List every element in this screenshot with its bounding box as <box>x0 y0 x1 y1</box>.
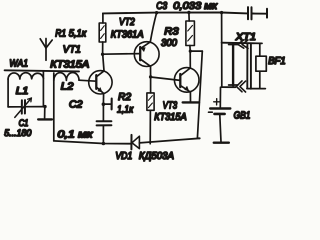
wire VT3 emitter down <box>189 92 191 102</box>
svg-text:R2: R2 <box>118 92 131 103</box>
ground (VT3 emitter) <box>183 101 199 103</box>
capacitor C1 (variable) <box>15 98 32 117</box>
wire rail down to XT1 <box>221 13 223 88</box>
svg-text:0,1 мк: 0,1 мк <box>58 130 93 141</box>
node rail junction <box>102 142 106 146</box>
svg-text:5,1к: 5,1к <box>69 29 87 40</box>
wire VT1 collector up to node A <box>103 54 104 71</box>
wire tank bottom right <box>26 106 46 108</box>
capacitor C2 <box>97 121 112 125</box>
svg-text:WA1: WA1 <box>9 58 28 69</box>
wire node D down <box>102 104 104 121</box>
inductor L1 <box>8 71 43 107</box>
wire stub right <box>103 103 110 105</box>
resistor R1 <box>99 13 106 54</box>
battery GB1 <box>209 87 231 142</box>
node D (emitter/C2) <box>102 102 106 106</box>
connector XT1 <box>222 40 266 92</box>
plate (stub capacitor) <box>111 99 113 110</box>
wire VT3 collector / R3 node <box>189 51 191 68</box>
wire bottom rail right <box>139 138 199 143</box>
capacitor C3 <box>248 7 267 19</box>
svg-text:КТ315А: КТ315А <box>154 112 187 123</box>
wire VT2 emitter to top rail <box>150 13 156 42</box>
ferrite core line (antenna wire) <box>5 70 79 71</box>
wire tank bottom left <box>8 106 21 108</box>
svg-text:300: 300 <box>161 38 178 49</box>
svg-text:R3: R3 <box>164 27 179 38</box>
wire feedback down <box>197 51 202 138</box>
svg-text:С2: С2 <box>69 99 83 110</box>
wire L2 to VT1 base <box>79 80 96 81</box>
svg-text:КД503А: КД503А <box>139 151 175 162</box>
wire down to ground <box>44 107 46 118</box>
ground (tank) <box>38 118 52 120</box>
wire node B to VT3 base <box>151 77 181 80</box>
wire VT1 emitter down <box>102 93 104 104</box>
diode VD1 <box>131 135 139 150</box>
node XT1 drop <box>220 11 223 14</box>
svg-text:1,1к: 1,1к <box>117 104 134 115</box>
node C (R3/VT3c/feedback) <box>189 50 192 53</box>
wire feedback right <box>190 50 202 52</box>
svg-text:XT1: XT1 <box>235 32 257 43</box>
svg-text:VD1: VD1 <box>115 151 132 162</box>
wire VT2 collector down <box>150 66 152 77</box>
wire node A to VT2 base <box>103 53 141 56</box>
inductor L2 <box>54 72 79 140</box>
svg-text:L2: L2 <box>61 82 74 93</box>
svg-text:R1: R1 <box>55 29 66 40</box>
svg-text:С3: С3 <box>156 1 167 12</box>
wire top rail <box>103 12 247 15</box>
node B (VT2c/R2/VT3b) <box>149 75 152 78</box>
svg-text:BF1: BF1 <box>268 56 286 67</box>
wire C2 down to rail <box>102 126 104 144</box>
svg-text:КТ361А: КТ361А <box>111 29 144 40</box>
svg-text:VT2: VT2 <box>119 17 135 28</box>
svg-text:VT3: VT3 <box>163 101 178 112</box>
node tank-ground junction <box>43 105 46 108</box>
resistor R3 <box>186 11 195 51</box>
node VT2e/rail <box>155 11 158 14</box>
svg-text:КТ315А: КТ315А <box>50 60 89 71</box>
earphone BF1 <box>256 43 266 88</box>
svg-text:VT1: VT1 <box>63 44 81 55</box>
ground (GB1 minus) <box>214 141 229 143</box>
transistor VT1 <box>89 71 112 94</box>
node A (R1/VT1c/VT2b) <box>101 53 104 56</box>
antenna WA1 <box>40 39 52 61</box>
svg-text:С1: С1 <box>19 118 29 128</box>
transistor VT2 <box>134 42 159 67</box>
svg-text:GB1: GB1 <box>234 110 251 121</box>
resistor R2 <box>147 77 154 144</box>
transistor VT3 <box>174 68 199 93</box>
wire bottom rail left <box>54 141 131 144</box>
wire rail end up <box>197 137 199 139</box>
svg-text:5...180: 5...180 <box>4 128 31 138</box>
svg-text:0,033 мк: 0,033 мк <box>173 1 218 12</box>
svg-text:L1: L1 <box>16 86 29 97</box>
